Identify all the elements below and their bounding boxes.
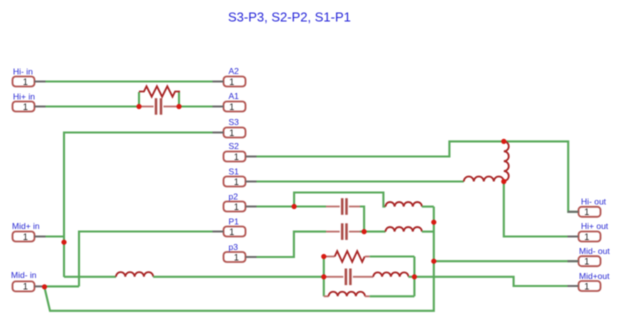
wire p2 bypass loop [294,193,385,207]
port Mid- out [568,256,601,266]
wire S1 node to Hi+ out [504,182,579,237]
junction [321,254,326,259]
inductor (p2 series) [386,202,422,207]
svg-text:1: 1 [229,128,234,138]
port Mid+ in [13,232,46,242]
port A2 [213,77,246,87]
junction [61,240,66,245]
port S3 [213,128,246,138]
port p2 [224,202,257,212]
RLC tank left bar [323,257,325,297]
resistor (tank) [324,251,415,262]
port Mid- in [13,281,44,291]
wire Mid- out [434,260,579,262]
wire Hi- in to A2 [45,80,213,82]
svg-text:1: 1 [584,257,589,267]
svg-text:1: 1 [584,207,589,217]
junction [412,274,417,279]
svg-text:p3: p3 [229,242,239,252]
capacitor (p2 row) [294,198,364,231]
wire tank cap branch to right bar [408,276,414,278]
junction [321,274,326,279]
port Hi+ out [568,232,601,242]
inductor (vertical, S2-S1) [504,141,509,181]
svg-text:Hi+ in: Hi+ in [13,92,35,102]
svg-text:Mid- in: Mid- in [11,270,37,280]
svg-text:1: 1 [234,202,239,212]
wire p2 feed [256,205,294,207]
svg-text:S3-P3, S2-P2, S1-P1: S3-P3, S2-P2, S1-P1 [228,10,351,25]
port P1 [213,227,246,237]
svg-text:S1: S1 [229,167,240,177]
inductor (S1 series) [464,177,504,182]
svg-text:Hi- in: Hi- in [13,67,33,77]
svg-text:1: 1 [23,77,28,87]
svg-text:1: 1 [23,232,28,242]
port S2 [224,152,257,162]
inductor (tank, series with cap) [373,272,408,276]
svg-text:A2: A2 [229,66,240,76]
junction [362,229,367,234]
svg-text:1: 1 [584,281,589,291]
junction [176,104,181,109]
junction [501,179,506,184]
wire S2 run [256,141,579,211]
inductor (Mid series) [116,272,153,277]
capacitor (Hi shunt) [139,98,179,115]
port A1 [213,102,246,112]
junction [136,104,141,109]
wire P1 to lower bus [79,232,213,287]
svg-text:Hi- out: Hi- out [581,197,607,207]
svg-text:1: 1 [234,177,239,187]
svg-text:A1: A1 [229,91,240,101]
svg-text:P1: P1 [229,217,240,227]
svg-text:1: 1 [584,232,589,242]
svg-text:1: 1 [23,102,28,112]
inductor (p3 series) [386,227,422,232]
wire Mid- in [43,285,79,287]
wire Mid- in diagonal to bottom rail [45,207,434,311]
wire S3 to vertical bus [64,133,213,278]
svg-text:S3: S3 [229,117,240,127]
inductor (tank bottom) [324,292,415,297]
svg-text:Mid- out: Mid- out [579,246,610,256]
svg-text:S2: S2 [229,141,240,151]
wire tank to Mid+ out [414,277,578,286]
wire inductor2 to V3 [422,231,434,233]
svg-text:Hi+ out: Hi+ out [581,221,609,231]
port p3 [224,252,257,262]
capacitor (p3 row) [326,223,386,240]
wire inductor to RLC left node [153,276,324,278]
junction [292,204,297,209]
svg-text:1: 1 [23,282,28,292]
svg-text:p2: p2 [229,192,239,202]
svg-text:Mid+out: Mid+out [579,271,610,281]
svg-text:1: 1 [229,102,234,112]
svg-text:1: 1 [234,252,239,262]
wire inductor to V3 [422,206,434,208]
junction [431,259,436,264]
svg-text:1: 1 [234,152,239,162]
wire Mid+ in tap [45,235,64,237]
wire S1 to inductor [256,180,464,182]
port Hi- out [568,207,601,217]
junction [501,139,506,144]
svg-text:1: 1 [229,227,234,237]
junction [42,284,47,289]
capacitor (tank) [324,269,374,286]
port S1 [224,177,257,187]
wire Hi+ in to A1 [45,105,213,107]
svg-text:1: 1 [229,77,234,87]
RLC tank right bar [413,257,415,297]
wire bus to inductor (Mid series) [64,276,116,278]
port Hi+ in [13,102,46,112]
resistor (Hi shunt) [139,86,180,106]
wire p3 feed [256,232,326,257]
svg-text:Mid+ in: Mid+ in [12,221,40,231]
junction [431,220,436,225]
port Mid+ out [568,281,601,291]
port Hi- in [13,77,46,87]
